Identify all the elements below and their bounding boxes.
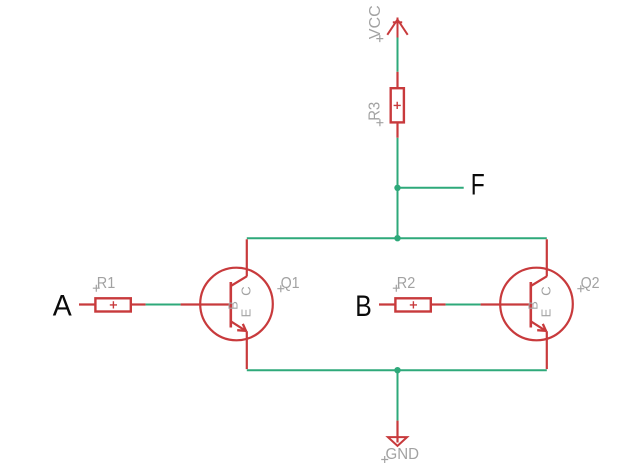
svg-text:F: F	[471, 169, 485, 202]
svg-text:A: A	[53, 290, 72, 323]
wire bottom rail to GND	[397, 370, 399, 420]
svg-text:E: E	[239, 308, 254, 317]
label R1	[93, 275, 116, 292]
junction top rail	[394, 235, 400, 241]
svg-text:C: C	[239, 286, 254, 295]
svg-text:R3: R3	[367, 102, 384, 121]
svg-text:C: C	[539, 286, 554, 295]
net label A	[53, 290, 72, 323]
label +VCC	[367, 5, 384, 42]
wire R1 to Q1 base	[146, 304, 181, 306]
junction bottom rail	[394, 367, 400, 373]
wire top rail (collector bus)	[247, 237, 547, 239]
supply symbol VCC (arrow)	[387, 18, 407, 38]
label +R3	[367, 102, 384, 126]
pin label C (Q1)	[239, 286, 254, 295]
wire bottom rail (emitter bus)	[247, 369, 547, 371]
svg-text:E: E	[539, 308, 554, 317]
svg-text:R1: R1	[97, 275, 116, 292]
resistor R1	[95, 298, 145, 311]
svg-text:B: B	[355, 290, 372, 323]
svg-text:B: B	[226, 301, 241, 310]
junction node F	[394, 185, 400, 191]
wire VCC to R3	[397, 38, 399, 72]
net label F	[471, 169, 485, 202]
svg-text:GND: GND	[386, 446, 420, 463]
wire B pin lead	[379, 303, 395, 305]
resistor R2	[395, 298, 445, 311]
resistor R3	[391, 72, 404, 138]
label Q2	[577, 275, 599, 292]
net label B	[355, 290, 372, 323]
transistor Q1	[181, 239, 273, 369]
pin label E (Q2)	[539, 308, 554, 317]
wire A pin lead	[79, 303, 95, 305]
ground symbol GND	[388, 421, 407, 446]
wire R2 to Q2 base	[446, 304, 481, 306]
svg-text:B: B	[526, 301, 541, 310]
svg-text:R2: R2	[397, 275, 416, 292]
svg-text:VCC: VCC	[367, 5, 384, 39]
label Q1	[277, 275, 299, 292]
pin label C (Q2)	[539, 286, 554, 295]
label GND	[381, 446, 419, 463]
pin label E (Q1)	[239, 308, 254, 317]
wire stub node F	[398, 187, 464, 189]
label R2	[393, 275, 416, 292]
pin label B (Q1)	[226, 301, 241, 310]
transistor Q2	[481, 239, 573, 369]
wire R3 to top rail	[397, 138, 399, 238]
pin label B (Q2)	[526, 301, 541, 310]
